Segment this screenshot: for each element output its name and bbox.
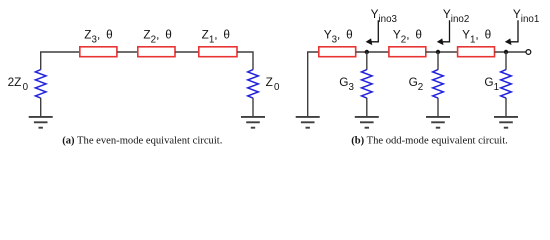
wire: Y2 to Y1 [426,51,458,53]
wire: Z2 to Z1 [175,51,199,53]
svg-text:Y2, θ: Y2, θ [393,28,422,46]
svg-text:Z1, θ: Z1, θ [202,28,230,46]
svg-text:Y1, θ: Y1, θ [462,28,491,46]
svg-text:Yino2: Yino2 [443,7,469,25]
wire: G1 top lead [505,52,507,70]
wire: Z3 to Z2 [117,51,138,53]
resistor 2Z0 (zigzag) [35,70,46,99]
transmission line Y3 [319,47,356,57]
ground G3 [355,117,379,128]
wire: G2 bottom lead [437,98,439,116]
resistor G3 (zigzag) [362,70,373,99]
ground G1 [494,117,518,128]
ground (b) left [296,117,320,128]
svg-text:Z0: Z0 [266,75,280,93]
ground (a) right [241,117,265,128]
wire: (a) left corner segment [41,52,80,70]
wire: Z0 bottom lead [252,98,254,116]
svg-text:G1: G1 [484,75,499,93]
svg-text:(b) The odd-mode equivalent ci: (b) The odd-mode equivalent circuit. [351,135,508,146]
wire: (b) left corner segment down to ground [308,52,319,116]
open terminal [526,50,531,55]
resistor G2 (zigzag) [433,70,444,99]
ground G2 [426,117,450,128]
transmission line Y2 [389,47,426,57]
resistor Z0 (zigzag) [248,70,259,99]
node dot 2 [436,50,440,54]
svg-text:G3: G3 [339,75,354,93]
transmission line Z3 [80,47,117,57]
node dot 3 [365,50,369,54]
wire: G3 top lead [366,52,368,70]
svg-text:Z2, θ: Z2, θ [143,28,171,46]
wire: G1 bottom lead [505,98,507,116]
wire: (a) right corner segment [237,52,253,70]
resistor G1 (zigzag) [501,70,512,99]
svg-text:Z3, θ: Z3, θ [84,28,112,46]
arrow Y_ino1 [505,20,518,45]
wire: Y1 to output terminal [495,51,526,53]
wire: Y3 to Y2 [356,51,389,53]
arrow Y_ino3 [366,20,379,45]
svg-text:2Z0: 2Z0 [8,75,29,93]
arrow Y_ino2 [437,20,450,45]
node dot 1 [504,50,508,54]
svg-text:Y3, θ: Y3, θ [324,28,353,46]
transmission line Z1 [199,47,237,57]
transmission line Z2 [138,47,175,57]
wire: 2Z0 bottom lead [40,98,42,116]
svg-text:Yino3: Yino3 [371,7,398,25]
ground (a) left [29,117,53,128]
svg-text:(a) The even-mode equivalent c: (a) The even-mode equivalent circuit. [62,135,222,146]
wire: G3 bottom lead [366,98,368,116]
transmission line Y1 [458,47,495,57]
svg-text:G2: G2 [409,75,424,93]
wire: G2 top lead [437,52,439,70]
svg-text:Yino1: Yino1 [513,7,539,25]
